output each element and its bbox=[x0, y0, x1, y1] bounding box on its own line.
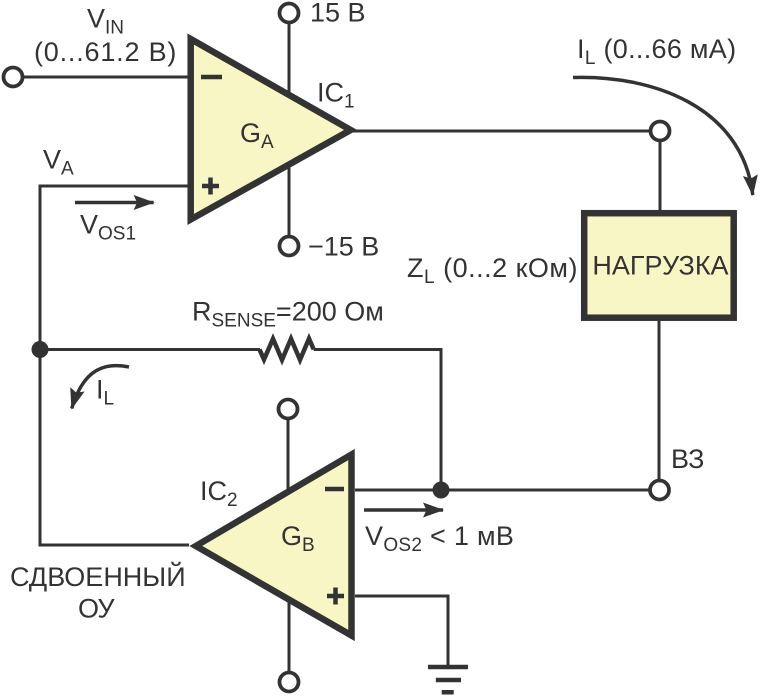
junction node sense/inverting input bbox=[433, 482, 450, 499]
wire IC1 output to node bbox=[352, 130, 650, 133]
terminal IC2 bottom supply bbox=[280, 673, 299, 692]
wire IC2 + input to ground bbox=[355, 596, 448, 665]
wire RSENSE right segment to junction bbox=[314, 350, 441, 489]
arrow IL current direction top right bbox=[573, 77, 753, 195]
terminal +15V bbox=[280, 4, 299, 23]
IC2 inverting input marker − bbox=[325, 487, 344, 492]
wire IC2 bottom supply bbox=[288, 598, 291, 672]
IC1 inverting input marker − bbox=[201, 75, 222, 80]
op-amp IC1 body bbox=[191, 39, 351, 220]
svg-text:15 В: 15 В bbox=[310, 0, 366, 28]
load box НАГРУЗКА bbox=[584, 213, 734, 318]
svg-text:ZL (0...2 кОм): ZL (0...2 кОм) bbox=[407, 253, 578, 288]
IC1 non-inverting input marker + bbox=[202, 178, 219, 195]
wire IC1 to −15V supply bbox=[288, 163, 291, 237]
svg-text:−15 В: −15 В bbox=[308, 232, 379, 262]
junction node VA / RSENSE bbox=[32, 341, 49, 358]
svg-text:VIN: VIN bbox=[87, 4, 124, 39]
svg-text:(0...61.2 В): (0...61.2 В) bbox=[34, 37, 177, 67]
svg-text:IC2: IC2 bbox=[200, 476, 238, 511]
output node terminal bbox=[651, 122, 670, 141]
wire +15V supply to IC1 bbox=[288, 23, 291, 97]
terminal ВЗ bbox=[650, 481, 669, 500]
svg-text:VOS1: VOS1 bbox=[80, 210, 136, 245]
arrow VOS1 offset direction bbox=[75, 201, 154, 205]
wire VA node: IC1 + input, vertical run, to IC2 output bbox=[40, 186, 190, 545]
IC2 non-inverting input marker + bbox=[327, 588, 344, 605]
arrow VOS2 offset direction bbox=[364, 508, 443, 512]
input terminal (VIN) bbox=[4, 68, 23, 87]
svg-text:ОУ: ОУ bbox=[78, 594, 115, 624]
wire IC2 top supply bbox=[287, 419, 290, 492]
svg-text:VA: VA bbox=[43, 145, 74, 180]
svg-text:IL: IL bbox=[96, 375, 114, 410]
svg-text:НАГРУЗКА: НАГРУЗКА bbox=[592, 251, 728, 281]
wire load to ВЗ terminal bbox=[658, 320, 661, 480]
svg-text:IL (0...66 мА): IL (0...66 мА) bbox=[577, 34, 736, 69]
arrow IL current direction left bbox=[72, 366, 129, 409]
ground bbox=[428, 667, 468, 692]
terminal IC2 top supply bbox=[279, 400, 298, 419]
wire RSENSE left segment bbox=[40, 348, 260, 351]
svg-text:IC1: IC1 bbox=[317, 78, 355, 113]
terminal −15V bbox=[280, 237, 299, 256]
wire node to load bbox=[659, 140, 662, 212]
op-amp IC2 body bbox=[196, 455, 352, 636]
svg-text:СДВОЕННЫЙ: СДВОЕННЫЙ bbox=[10, 561, 186, 592]
wire ВЗ to IC2 inverting input bbox=[355, 489, 649, 492]
svg-text:ВЗ: ВЗ bbox=[671, 444, 704, 474]
svg-text:RSENSE=200 Ом: RSENSE=200 Ом bbox=[192, 297, 384, 332]
wire VIN input to IC1 inverting input bbox=[23, 76, 191, 79]
svg-text:VOS2 < 1 мВ: VOS2 < 1 мВ bbox=[365, 521, 514, 556]
resistor RSENSE bbox=[260, 339, 314, 360]
